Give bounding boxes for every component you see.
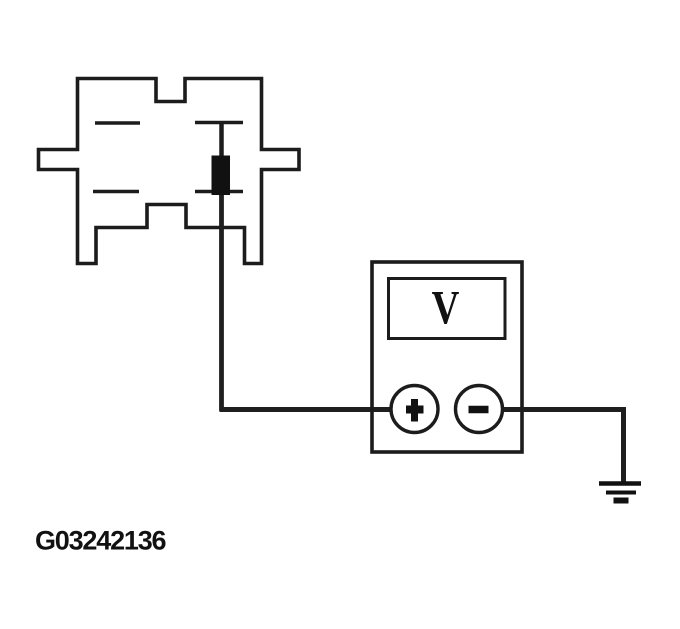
injector solenoid element: [212, 124, 231, 195]
wire vertical from injector pin down: [219, 195, 224, 411]
ground symbol: [599, 484, 641, 501]
svg-text:V: V: [432, 282, 460, 335]
pin terminal bar upper-right: [195, 121, 243, 125]
voltmeter body: [372, 262, 522, 452]
pin terminal dash lower-left: [93, 190, 139, 193]
wire horizontal to voltmeter plus terminal: [220, 407, 393, 412]
wire from minus terminal to ground: [503, 410, 624, 483]
voltmeter display window: [389, 279, 506, 339]
connector outline: [39, 79, 300, 264]
pin terminal bar lower-right: [195, 190, 243, 194]
terminal minus: [456, 386, 503, 433]
pin terminal dash upper-left: [95, 121, 140, 124]
terminal plus: [391, 386, 438, 433]
svg-text:G03242136: G03242136: [35, 526, 167, 556]
